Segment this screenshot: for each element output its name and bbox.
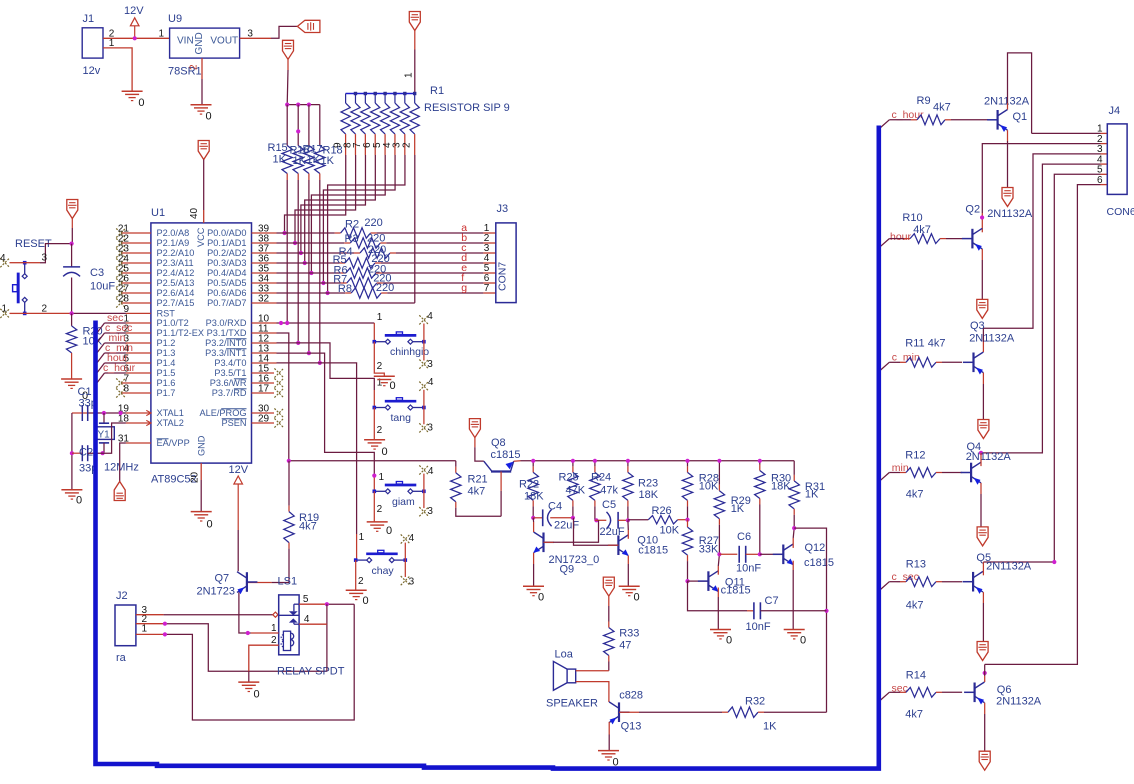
U1 pin 38 P0.1/AD1 stub bbox=[207, 234, 276, 249]
wire RESET button pin2 to RST bbox=[25, 304, 126, 315]
label RESISTOR SIP 9 bbox=[424, 102, 510, 114]
junction rail R28 bbox=[685, 459, 689, 463]
U1 pin 5 P1.4 stub bbox=[123, 354, 175, 369]
junction Q11 base bbox=[685, 579, 689, 583]
pushbutton RESET bbox=[13, 261, 28, 315]
svg-text:1K: 1K bbox=[293, 155, 307, 167]
wire Q9 base to C5 bbox=[544, 520, 599, 542]
svg-text:2N1132A: 2N1132A bbox=[987, 208, 1033, 220]
label R18 bbox=[323, 145, 343, 157]
ground 0 Q9 bbox=[523, 586, 544, 603]
U1 pin 1 P1.0/T2 stub bbox=[123, 314, 188, 329]
svg-text:20: 20 bbox=[190, 471, 201, 483]
svg-text:P0.2/AD2: P0.2/AD2 bbox=[207, 248, 246, 258]
label R1 pin5 number bbox=[372, 142, 383, 148]
svg-text:P0.7/AD7: P0.7/AD7 bbox=[207, 298, 246, 308]
svg-text:2: 2 bbox=[271, 635, 277, 646]
svg-text:1: 1 bbox=[271, 623, 277, 634]
junction P0.6 pullup bbox=[326, 291, 330, 295]
relay LS1 RELAY SPDT body bbox=[279, 595, 299, 655]
bus entry c_min bbox=[881, 362, 890, 370]
svg-text:g: g bbox=[461, 282, 467, 294]
signal bus (thick blue) bbox=[96, 126, 879, 769]
wire Q6 emitter to off-page bbox=[984, 703, 986, 752]
svg-text:P1.6: P1.6 bbox=[157, 378, 176, 388]
wire Q12 collector bbox=[793, 528, 794, 548]
svg-text:1K: 1K bbox=[805, 489, 819, 501]
chinhgio pin4 bbox=[419, 311, 433, 342]
svg-text:Q12: Q12 bbox=[805, 542, 826, 554]
wire C4 to Q10 base bbox=[574, 518, 619, 545]
ground 0 Q12 bbox=[784, 630, 806, 647]
svg-text:0: 0 bbox=[386, 525, 392, 537]
net label c_sec bbox=[892, 571, 919, 583]
label R1 pin6 number bbox=[362, 142, 373, 148]
off-page connector Q6 emitter bbox=[979, 751, 990, 770]
ground 0 Q13 bbox=[598, 751, 619, 769]
wire J2 pin1 bbox=[136, 604, 354, 720]
wire R4 to J3 bbox=[390, 252, 496, 254]
svg-text:P0.6/AD6: P0.6/AD6 bbox=[207, 288, 246, 298]
resistor R12 4k7 bbox=[889, 468, 962, 478]
svg-text:1: 1 bbox=[159, 28, 165, 39]
value R3 220 bbox=[367, 232, 385, 244]
U1 pin 18 XTAL2 stub bbox=[118, 414, 184, 429]
svg-text:2: 2 bbox=[42, 304, 48, 315]
svg-text:4k7: 4k7 bbox=[905, 709, 923, 721]
svg-text:R3: R3 bbox=[345, 233, 359, 245]
wire Q11 base bbox=[688, 580, 709, 582]
wire off-page to Q8 collector bbox=[475, 438, 484, 462]
svg-text:10nF: 10nF bbox=[736, 563, 761, 575]
svg-text:1K: 1K bbox=[731, 503, 745, 515]
svg-text:1: 1 bbox=[379, 472, 385, 483]
svg-text:R8: R8 bbox=[338, 283, 352, 295]
svg-text:U1: U1 bbox=[151, 207, 165, 219]
wire Q12 collector node to R32 bbox=[794, 528, 826, 712]
svg-text:3: 3 bbox=[409, 577, 415, 588]
net label c_min bbox=[892, 352, 920, 364]
svg-text:1K: 1K bbox=[273, 154, 287, 166]
U1 pin 34 P0.5/AD5 stub bbox=[207, 274, 276, 289]
junction J1/12V bbox=[133, 36, 137, 40]
value R5 220 bbox=[371, 253, 389, 265]
net label segment b bbox=[461, 232, 467, 244]
svg-text:P3.1/TXD: P3.1/TXD bbox=[207, 328, 247, 338]
U1 pin 13 P3.3/INT1 stub bbox=[205, 344, 276, 359]
svg-text:12V: 12V bbox=[229, 464, 249, 476]
svg-text:XTAL1: XTAL1 bbox=[157, 408, 184, 418]
wire R18 lower lead bbox=[319, 174, 321, 363]
svg-text:4: 4 bbox=[428, 466, 434, 477]
resistor R19 4k7 bbox=[284, 461, 319, 583]
resistor R7 220 bbox=[347, 278, 377, 288]
junction P3.4 R18 bbox=[318, 361, 322, 365]
pushbutton chinhgio bbox=[373, 332, 430, 358]
giam pin3 bbox=[419, 491, 433, 517]
relay pin2 stub bbox=[249, 635, 279, 682]
label J3 pin1 number bbox=[484, 223, 490, 234]
svg-text:12MHz: 12MHz bbox=[104, 462, 139, 474]
svg-text:ALE/PROG: ALE/PROG bbox=[200, 408, 247, 418]
junction J2 pin1 bbox=[163, 632, 167, 636]
svg-text:R2: R2 bbox=[345, 219, 359, 231]
svg-text:SPEAKER: SPEAKER bbox=[546, 698, 598, 710]
wire Q1 collector to J4 pin1 bbox=[1008, 53, 1108, 133]
svg-text:18K: 18K bbox=[771, 481, 791, 493]
ground 0 below R20 bbox=[61, 379, 88, 402]
value R2 220 bbox=[364, 217, 382, 229]
wire 12V to Q7 collector bbox=[237, 484, 239, 571]
resistor R8 220 bbox=[351, 288, 381, 298]
wire U1 pin40 VCC bbox=[203, 160, 205, 223]
resistor R1 element pin9 bbox=[341, 94, 350, 156]
off-page connector Q5 emitter bbox=[977, 642, 988, 661]
label U1 pin40 number bbox=[189, 207, 200, 219]
label R8 bbox=[338, 283, 352, 295]
junction relay pin5 bbox=[325, 602, 329, 606]
svg-text:P2.3/A11: P2.3/A11 bbox=[157, 258, 194, 268]
svg-text:Q7: Q7 bbox=[215, 573, 230, 585]
wire P3.1 rail bbox=[277, 333, 456, 461]
svg-text:ra: ra bbox=[116, 652, 127, 664]
wire Q5 collector bbox=[982, 562, 984, 575]
off-page connector Q2 emitter bbox=[977, 299, 988, 318]
svg-text:47K: 47K bbox=[566, 485, 586, 497]
junction R16 lead bbox=[296, 129, 300, 133]
net label hour bbox=[107, 352, 129, 364]
svg-text:2N1723: 2N1723 bbox=[197, 586, 236, 598]
svg-text:220: 220 bbox=[367, 232, 385, 244]
svg-text:0: 0 bbox=[726, 635, 732, 647]
ground 0 Q10 bbox=[619, 586, 640, 603]
svg-text:c1815: c1815 bbox=[804, 557, 834, 569]
IC U1 AT89C52 body bbox=[151, 207, 252, 463]
resistor R3 220 bbox=[350, 238, 380, 248]
svg-text:0: 0 bbox=[206, 111, 212, 123]
wire R1 pin5 to P0.4 net bbox=[311, 155, 385, 273]
svg-text:R32: R32 bbox=[745, 696, 765, 708]
wire J4 pin3 to Q3 bbox=[983, 154, 1107, 328]
label J3 pin5 number bbox=[484, 263, 490, 274]
svg-text:P3.3/INT1: P3.3/INT1 bbox=[205, 348, 246, 358]
junction C4 right bbox=[571, 516, 575, 520]
wire Q11 emitter to ground bbox=[717, 588, 719, 630]
relay pin1 stub bbox=[251, 623, 279, 634]
wire Q1 emitter to off-page bbox=[1007, 130, 1009, 187]
svg-text:C4: C4 bbox=[548, 501, 562, 513]
U1 pin 21 P2.0/A8 stub bbox=[116, 224, 189, 239]
wire R1 pin9 to P0.0 net bbox=[285, 155, 346, 233]
giam pin2 to ground bbox=[374, 491, 382, 522]
value R16 1K bbox=[293, 155, 307, 167]
label R12 bbox=[905, 450, 925, 462]
off-page connector RESET net bbox=[67, 200, 78, 219]
label R1 pin4 number bbox=[382, 142, 393, 148]
svg-text:P2.1/A9: P2.1/A9 bbox=[157, 238, 190, 248]
svg-text:1: 1 bbox=[142, 624, 148, 635]
wire R15 lower lead bbox=[286, 174, 288, 323]
junction C5 left bbox=[594, 518, 598, 522]
wire R1 pin1 bbox=[414, 30, 416, 94]
svg-text:Q13: Q13 bbox=[621, 721, 642, 733]
U1 pin 28 P2.7/A15 stub bbox=[116, 294, 194, 309]
svg-text:GND: GND bbox=[194, 32, 205, 54]
net label segment d bbox=[461, 252, 467, 264]
capacitor C7 10nF bbox=[746, 595, 827, 633]
U1 pin 27 P2.6/A14 stub bbox=[116, 284, 194, 299]
speaker Loa bbox=[546, 649, 598, 710]
label R1 pin8 number bbox=[342, 142, 353, 148]
svg-text:0: 0 bbox=[800, 635, 806, 647]
wire P1 net c_min bbox=[97, 353, 126, 363]
label chinhgio pin1 bbox=[377, 312, 383, 323]
wire Q3 emitter to off-page bbox=[982, 373, 984, 420]
net label min bbox=[109, 332, 126, 344]
U1 pin 11 P3.1/TXD stub bbox=[207, 324, 277, 339]
svg-text:7: 7 bbox=[484, 283, 490, 294]
svg-text:P0.4/AD4: P0.4/AD4 bbox=[207, 268, 246, 278]
svg-text:CON7: CON7 bbox=[497, 262, 509, 291]
junction C6 left bbox=[717, 552, 721, 556]
svg-text:Q1: Q1 bbox=[1013, 111, 1028, 123]
label R17 bbox=[303, 144, 323, 156]
U1 pin 37 P0.2/AD2 stub bbox=[207, 244, 276, 259]
transistor Q6 2N1132A bbox=[964, 682, 1042, 708]
svg-text:2N1132A: 2N1132A bbox=[969, 333, 1015, 345]
off-page connector Q3 emitter bbox=[978, 420, 989, 439]
svg-text:2: 2 bbox=[401, 142, 412, 148]
wire Q8 base bbox=[500, 472, 502, 517]
svg-text:Q8: Q8 bbox=[491, 437, 506, 449]
off-page connector Q8 feed bbox=[469, 419, 480, 438]
bus entry sec bbox=[881, 692, 890, 700]
junction RESET top bbox=[70, 242, 74, 246]
U1 pin 4 P1.3 stub bbox=[123, 344, 175, 359]
svg-text:P1.5: P1.5 bbox=[157, 368, 176, 378]
value R10 4k7 bbox=[913, 224, 931, 236]
resistor R18 1K bbox=[315, 146, 325, 174]
bus entry c_hour bbox=[881, 120, 890, 128]
svg-text:XTAL2: XTAL2 bbox=[157, 418, 184, 428]
label R3 bbox=[345, 233, 359, 245]
chinhgio pin2 to ground bbox=[374, 342, 384, 377]
transistor Q11 c1815 bbox=[698, 571, 751, 597]
U1 pin 32 P0.7/AD7 stub bbox=[207, 294, 276, 309]
net label c_hour bbox=[103, 362, 136, 374]
svg-text:P1.1/T2-EX: P1.1/T2-EX bbox=[157, 328, 205, 338]
chay pin3 bbox=[401, 560, 415, 587]
resistor R30 18K bbox=[755, 461, 792, 555]
svg-text:1: 1 bbox=[377, 312, 383, 323]
value R12 4k7 bbox=[906, 489, 924, 501]
wire P0.7 row bbox=[277, 302, 415, 304]
svg-text:4k7: 4k7 bbox=[299, 521, 317, 533]
svg-text:2: 2 bbox=[189, 64, 200, 70]
wire R2 to J3 bbox=[371, 232, 496, 234]
wire C1 left to vertical bbox=[72, 412, 82, 414]
wire R1 pin7 to P0.2 net bbox=[301, 155, 366, 253]
transistor Q7 2N1723 bbox=[197, 572, 258, 598]
label R1 pin2 number bbox=[401, 142, 412, 148]
wire P0 row to R3 bbox=[277, 242, 351, 244]
svg-text:R23: R23 bbox=[638, 478, 658, 490]
junction P0.1 pullup bbox=[293, 241, 297, 245]
svg-text:R24: R24 bbox=[591, 472, 611, 484]
wire off-page to RESET node bbox=[71, 219, 73, 244]
label R14 bbox=[906, 670, 926, 682]
wire J4 pin6 to Q6 bbox=[985, 185, 1108, 665]
bus entry min bbox=[881, 473, 890, 481]
junction R1 rail col8 bbox=[413, 92, 416, 95]
wire C2 to XTAL2 bbox=[88, 423, 126, 453]
U1 pin 3 P1.2 stub bbox=[123, 334, 175, 349]
svg-text:P3.5/T1: P3.5/T1 bbox=[214, 368, 246, 378]
wire Q4 collector bbox=[980, 453, 982, 466]
wire speaker bottom to Q13 bbox=[576, 682, 609, 702]
bus entry c_sec bbox=[881, 582, 890, 590]
bus rail R1 SIP common bbox=[346, 93, 415, 95]
wire RESET button pin1 bbox=[0, 304, 24, 319]
svg-text:10K: 10K bbox=[83, 336, 103, 348]
svg-text:R21: R21 bbox=[468, 474, 488, 486]
svg-text:J1: J1 bbox=[83, 13, 95, 25]
svg-text:P3.4/T0: P3.4/T0 bbox=[214, 358, 246, 368]
svg-text:3: 3 bbox=[427, 359, 433, 370]
label R4 bbox=[339, 246, 353, 258]
wire Q11 collector bbox=[718, 554, 719, 574]
svg-text:4k7: 4k7 bbox=[906, 489, 924, 501]
wire RESET button pin3 bbox=[25, 244, 73, 264]
svg-text:0: 0 bbox=[390, 380, 396, 392]
net label min bbox=[892, 462, 909, 474]
net label segment c bbox=[461, 242, 466, 254]
junction P0.0 pullup bbox=[282, 231, 286, 235]
svg-text:Loa: Loa bbox=[555, 649, 574, 661]
wire off-page to R15-R18 rail bbox=[286, 59, 289, 104]
svg-text:c_hour: c_hour bbox=[103, 362, 136, 374]
svg-text:10K: 10K bbox=[699, 481, 719, 493]
label R15 bbox=[268, 142, 288, 154]
junction rail R23 bbox=[626, 459, 630, 463]
power symbol 12V at J1 bbox=[124, 5, 144, 38]
svg-text:18K: 18K bbox=[639, 489, 659, 501]
off-page connector R1 pin1 bbox=[409, 12, 420, 31]
svg-text:C2: C2 bbox=[79, 447, 93, 459]
svg-text:J4: J4 bbox=[1109, 105, 1121, 117]
ground 0 Q11 bbox=[710, 630, 732, 647]
junction C7 line bbox=[824, 609, 828, 613]
value R18 1K bbox=[321, 155, 335, 167]
svg-text:R26: R26 bbox=[652, 505, 672, 517]
U1 pin 39 P0.0/AD0 stub bbox=[207, 224, 276, 239]
off-page connector Q1 emitter bbox=[1002, 188, 1013, 207]
U1 pin 9 RST bbox=[123, 304, 175, 319]
tang pin4 bbox=[419, 377, 434, 408]
wire R15-R18 top rail bbox=[287, 104, 320, 106]
svg-text:P1.7: P1.7 bbox=[157, 388, 176, 398]
wire J1 pin2 to U9 VIN bbox=[103, 37, 170, 39]
label U1 pin20 number bbox=[190, 471, 201, 483]
wire R19 to Q7 base bbox=[248, 582, 289, 584]
net label c_min bbox=[105, 342, 133, 354]
wire R18 upper lead bbox=[319, 105, 321, 146]
wire P3.2 to tang bbox=[277, 343, 375, 408]
resistor R24 47k bbox=[590, 461, 619, 521]
resistor R16 1K bbox=[293, 146, 303, 174]
label R6 bbox=[334, 264, 348, 276]
junction C2 row left bbox=[70, 451, 74, 455]
transistor Q8 c1815 bbox=[484, 437, 521, 472]
U1 pin 23 P2.2/A10 stub bbox=[116, 244, 194, 259]
svg-text:C5: C5 bbox=[602, 499, 616, 511]
svg-text:22uF: 22uF bbox=[600, 526, 625, 538]
svg-text:1: 1 bbox=[2, 304, 8, 315]
off-page connector U9 output bbox=[297, 20, 320, 32]
junction R1 rail col7 bbox=[403, 92, 406, 95]
junction relay pin1 bbox=[246, 631, 250, 635]
label R10 bbox=[902, 212, 922, 224]
ground 0 giam bbox=[367, 522, 392, 537]
net label sec bbox=[892, 683, 908, 695]
net label segment f bbox=[461, 272, 464, 284]
svg-text:hour: hour bbox=[890, 231, 912, 243]
capacitor C4 22uF bbox=[533, 501, 579, 532]
svg-text:Q3: Q3 bbox=[970, 320, 985, 332]
U1 pin 17 P3.7/RD stub bbox=[212, 384, 284, 399]
ground 0 below U9 bbox=[191, 105, 212, 123]
junction rail R19 bbox=[287, 459, 291, 463]
svg-text:P3.7/RD: P3.7/RD bbox=[212, 388, 247, 398]
value R15 1K bbox=[273, 154, 287, 166]
resistor R6 220 bbox=[346, 268, 376, 278]
ground 0 below U1 bbox=[191, 512, 213, 531]
svg-text:VCC: VCC bbox=[196, 227, 206, 247]
pushbutton chay bbox=[354, 550, 407, 577]
transistor Q1 2N1132A bbox=[984, 96, 1030, 133]
svg-text:10K: 10K bbox=[660, 525, 680, 537]
svg-text:P2.4/A12: P2.4/A12 bbox=[157, 268, 195, 278]
wire Q2 emitter to off-page bbox=[981, 249, 983, 299]
wire R16 lower lead bbox=[297, 174, 299, 343]
wire Q13 emitter to ground bbox=[608, 722, 610, 751]
svg-text:18K: 18K bbox=[524, 491, 544, 503]
svg-text:P2.6/A14: P2.6/A14 bbox=[157, 288, 195, 298]
wire R1 pin8 to P0.1 net bbox=[295, 155, 356, 243]
svg-text:P3.2/INT0: P3.2/INT0 bbox=[205, 338, 246, 348]
wire R8 to J3 bbox=[381, 292, 496, 294]
wire RESET button pin4 bbox=[0, 253, 25, 267]
wire P3.3 to giam bbox=[277, 353, 375, 491]
junction Q4 collector bbox=[979, 451, 983, 455]
net label segment e bbox=[461, 262, 467, 274]
wire P1 net hour bbox=[97, 363, 126, 373]
resistor R1 element pin3 bbox=[400, 94, 409, 156]
wire J4 pin2 to Q2 bbox=[982, 144, 1107, 233]
svg-text:Q2: Q2 bbox=[965, 204, 980, 216]
resistor R20 10K bbox=[66, 313, 102, 379]
connector J3 CON7 bbox=[496, 203, 516, 303]
value R8 220 bbox=[376, 282, 394, 294]
wire R17 lower lead bbox=[308, 174, 310, 354]
svg-text:4: 4 bbox=[0, 253, 6, 264]
net label sec bbox=[107, 312, 123, 324]
svg-text:VOUT: VOUT bbox=[210, 36, 238, 47]
tang pin3 bbox=[419, 408, 433, 434]
svg-text:Q9: Q9 bbox=[560, 564, 575, 576]
wire P0 row to R6 bbox=[277, 272, 346, 274]
junction rail R30 bbox=[758, 459, 762, 463]
